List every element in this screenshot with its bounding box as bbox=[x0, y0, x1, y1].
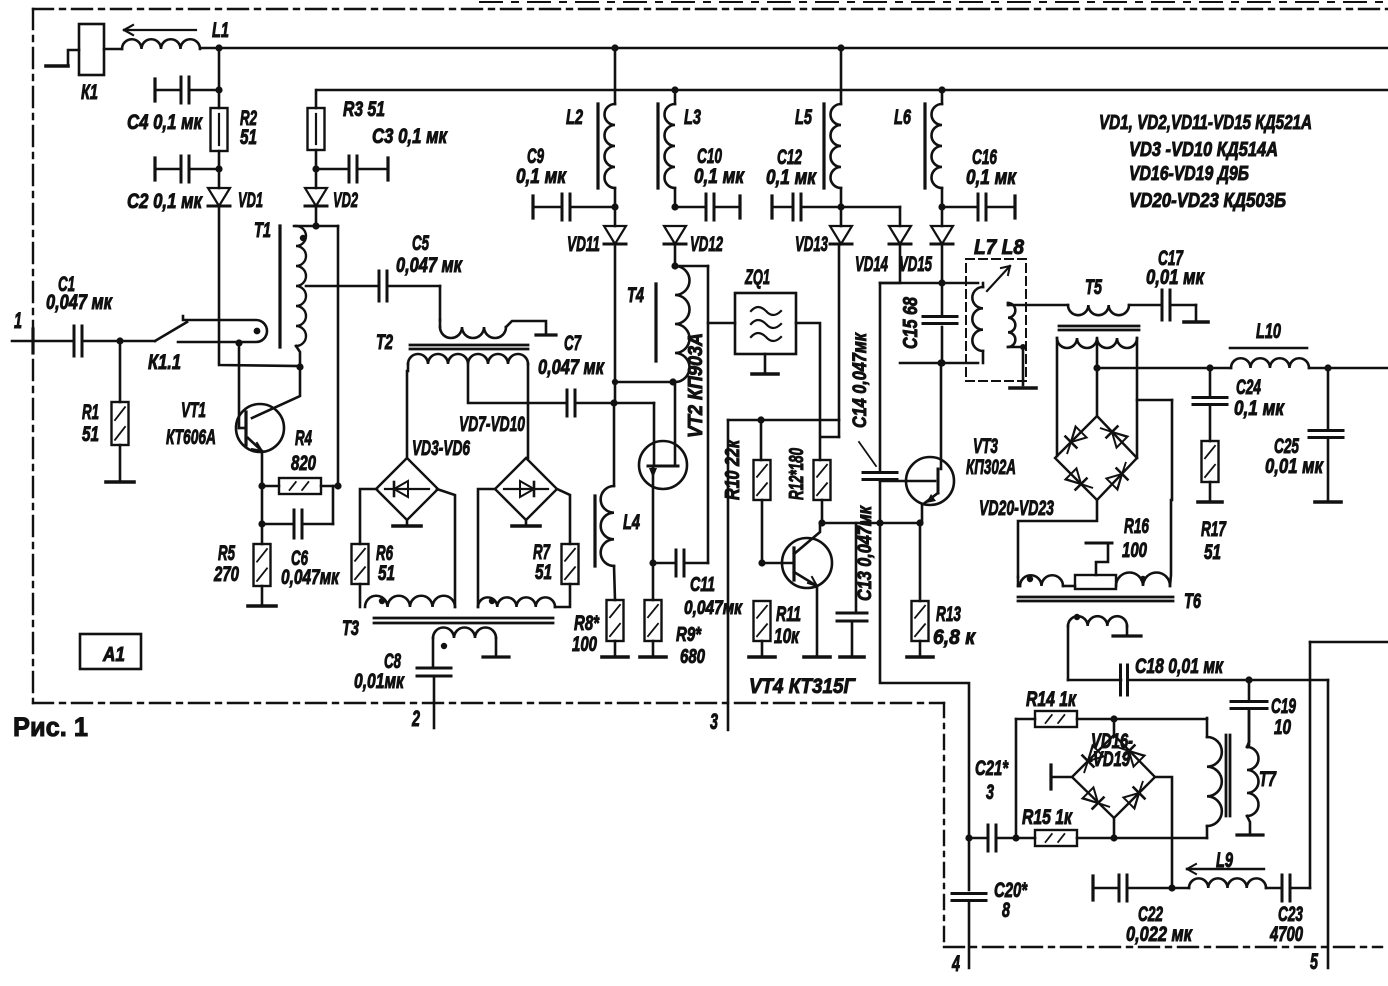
svg-text:51: 51 bbox=[535, 561, 552, 584]
svg-text:1: 1 bbox=[14, 308, 22, 333]
svg-text:VD16-VD19 Д9Б: VD16-VD19 Д9Б bbox=[1129, 163, 1249, 185]
svg-text:Т1: Т1 bbox=[254, 219, 271, 242]
svg-text:0,01 мк: 0,01 мк bbox=[1146, 266, 1205, 289]
svg-text:VT1: VT1 bbox=[181, 399, 206, 422]
svg-text:С5: С5 bbox=[412, 232, 429, 255]
svg-text:0,1 мк: 0,1 мк bbox=[966, 166, 1017, 189]
svg-text:0,1 мк: 0,1 мк bbox=[516, 165, 567, 188]
svg-text:R16: R16 bbox=[1124, 515, 1149, 538]
svg-text:С24: С24 bbox=[1236, 376, 1261, 399]
svg-text:КП302А: КП302А bbox=[966, 456, 1016, 479]
svg-text:С15 68: С15 68 bbox=[900, 296, 922, 349]
svg-text:6,8 к: 6,8 к bbox=[933, 626, 976, 649]
svg-text:К1: К1 bbox=[81, 81, 98, 104]
svg-text:0,01мк: 0,01мк bbox=[354, 670, 405, 693]
svg-text:4700: 4700 bbox=[1269, 923, 1303, 946]
svg-text:0,1 мк: 0,1 мк bbox=[766, 166, 817, 189]
svg-text:0,047 мк: 0,047 мк bbox=[538, 356, 605, 379]
svg-text:100: 100 bbox=[1122, 539, 1147, 562]
svg-text:Рис. 1: Рис. 1 bbox=[13, 712, 88, 742]
svg-text:VD1, VD2,VD11-VD15 КД521А: VD1, VD2,VD11-VD15 КД521А bbox=[1099, 112, 1312, 134]
svg-text:0,1 мк: 0,1 мк bbox=[694, 165, 745, 188]
svg-text:R10 22к: R10 22к bbox=[722, 439, 744, 500]
svg-text:0,01 мк: 0,01 мк bbox=[1265, 455, 1324, 478]
svg-text:С13 0,047мк: С13 0,047мк bbox=[855, 505, 876, 601]
svg-text:R14 1к: R14 1к bbox=[1026, 688, 1077, 711]
svg-text:3: 3 bbox=[986, 781, 994, 804]
svg-text:VD20-VD23 КД503Б: VD20-VD23 КД503Б bbox=[1129, 190, 1286, 212]
svg-text:R8*: R8* bbox=[574, 612, 600, 635]
svg-text:0,047 мк: 0,047 мк bbox=[396, 254, 463, 277]
svg-text:270: 270 bbox=[213, 563, 239, 586]
svg-text:10: 10 bbox=[1274, 716, 1291, 739]
svg-text:VD7-VD10: VD7-VD10 bbox=[459, 413, 525, 436]
svg-text:Т5: Т5 bbox=[1085, 276, 1102, 299]
svg-text:680: 680 bbox=[680, 646, 705, 668]
svg-text:0,047 мк: 0,047 мк bbox=[46, 291, 113, 314]
svg-text:0,1 мк: 0,1 мк bbox=[1234, 397, 1285, 420]
svg-text:R1: R1 bbox=[82, 401, 99, 424]
svg-text:VD12: VD12 bbox=[690, 233, 723, 256]
svg-text:L1: L1 bbox=[212, 19, 229, 42]
svg-text:VD14: VD14 bbox=[855, 253, 888, 276]
svg-text:С11: С11 bbox=[690, 574, 715, 596]
svg-text:С20*: С20* bbox=[994, 879, 1028, 902]
svg-text:VD20-VD23: VD20-VD23 bbox=[979, 497, 1054, 520]
svg-text:R17: R17 bbox=[1201, 518, 1227, 541]
svg-text:L5: L5 bbox=[795, 106, 812, 129]
svg-text:R5: R5 bbox=[218, 542, 235, 565]
svg-text:L6: L6 bbox=[894, 106, 911, 129]
svg-text:R4: R4 bbox=[295, 427, 312, 450]
svg-text:С14 0,047мк: С14 0,047мк bbox=[850, 332, 871, 428]
svg-text:0,047мк: 0,047мк bbox=[684, 598, 743, 619]
svg-text:С3 0,1 мк: С3 0,1 мк bbox=[372, 125, 448, 148]
svg-text:К1.1: К1.1 bbox=[148, 351, 181, 374]
svg-text:VD1: VD1 bbox=[238, 189, 263, 212]
svg-text:R9*: R9* bbox=[676, 624, 702, 646]
svg-text:L3: L3 bbox=[684, 106, 701, 129]
svg-text:51: 51 bbox=[1204, 541, 1221, 564]
svg-text:VD15: VD15 bbox=[899, 253, 932, 276]
svg-text:R12*180: R12*180 bbox=[786, 448, 808, 500]
svg-text:Т2: Т2 bbox=[376, 331, 393, 354]
svg-text:Т4: Т4 bbox=[627, 284, 644, 307]
svg-text:L10: L10 bbox=[1256, 320, 1281, 343]
svg-text:VD13: VD13 bbox=[795, 233, 828, 256]
svg-text:R11: R11 bbox=[776, 603, 801, 626]
svg-text:VD11: VD11 bbox=[567, 233, 600, 256]
svg-text:L7 L8: L7 L8 bbox=[974, 236, 1024, 259]
svg-text:-VD19: -VD19 bbox=[1088, 748, 1130, 771]
svg-text:КТ606А: КТ606А bbox=[166, 426, 216, 449]
svg-text:VD2: VD2 bbox=[333, 189, 358, 212]
svg-text:ZQ1: ZQ1 bbox=[744, 266, 770, 289]
svg-text:100: 100 bbox=[572, 633, 597, 656]
svg-text:С4 0,1 мк: С4 0,1 мк bbox=[127, 111, 203, 134]
svg-text:С2 0,1 мк: С2 0,1 мк bbox=[127, 190, 203, 213]
svg-text:Т3: Т3 bbox=[342, 617, 359, 640]
svg-text:R3 51: R3 51 bbox=[343, 98, 385, 121]
svg-text:L9: L9 bbox=[1216, 849, 1233, 872]
svg-text:L2: L2 bbox=[566, 106, 583, 129]
svg-text:0,047мк: 0,047мк bbox=[281, 566, 340, 589]
svg-text:А1: А1 bbox=[102, 644, 125, 666]
svg-text:0,022 мк: 0,022 мк bbox=[1126, 923, 1193, 946]
svg-text:5: 5 bbox=[1310, 949, 1318, 974]
svg-text:51: 51 bbox=[240, 126, 257, 149]
svg-text:VT3: VT3 bbox=[973, 435, 998, 458]
svg-text:Т7: Т7 bbox=[1259, 768, 1277, 791]
svg-text:4: 4 bbox=[951, 951, 960, 976]
svg-text:VT4 КТ315Г: VT4 КТ315Г bbox=[749, 675, 856, 698]
svg-text:L4: L4 bbox=[623, 511, 640, 534]
svg-text:R15 1к: R15 1к bbox=[1022, 806, 1073, 829]
svg-text:VD3 -VD10 КД514А: VD3 -VD10 КД514А bbox=[1129, 139, 1278, 161]
svg-text:820: 820 bbox=[291, 452, 316, 475]
svg-text:С19: С19 bbox=[1271, 695, 1296, 718]
svg-text:2: 2 bbox=[411, 706, 420, 731]
svg-text:3: 3 bbox=[710, 709, 718, 734]
svg-text:R13: R13 bbox=[936, 603, 961, 626]
svg-text:51: 51 bbox=[82, 423, 99, 446]
svg-text:8: 8 bbox=[1002, 899, 1010, 922]
svg-text:С7: С7 bbox=[564, 332, 582, 355]
svg-text:С18 0,01 мк: С18 0,01 мк bbox=[1135, 655, 1224, 678]
svg-text:VT2 КП903А: VT2 КП903А bbox=[685, 333, 707, 438]
svg-text:С21*: С21* bbox=[975, 757, 1009, 780]
svg-text:10к: 10к bbox=[774, 625, 800, 648]
svg-text:VD3-VD6: VD3-VD6 bbox=[412, 437, 470, 460]
svg-text:Т6: Т6 bbox=[1184, 590, 1201, 613]
svg-text:51: 51 bbox=[378, 562, 395, 585]
